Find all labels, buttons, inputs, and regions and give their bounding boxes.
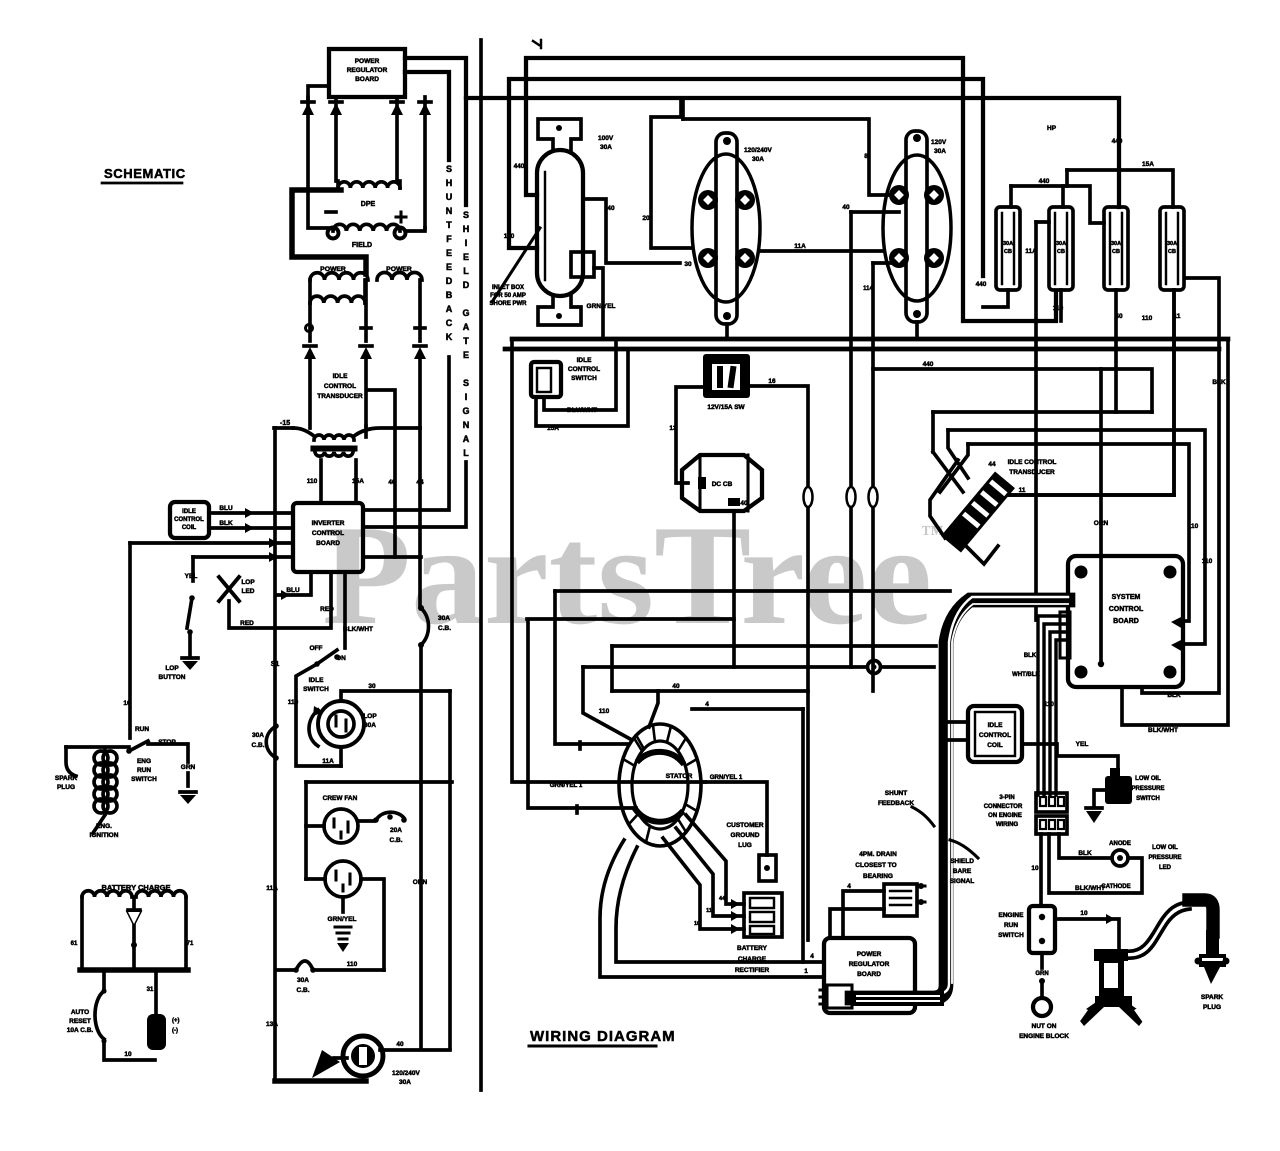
svg-text:S1: S1 bbox=[271, 661, 280, 668]
svg-text:F: F bbox=[446, 234, 452, 244]
svg-text:POWER: POWER bbox=[857, 951, 882, 958]
svg-text:CATHODE: CATHODE bbox=[1101, 884, 1130, 890]
svg-text:20A: 20A bbox=[390, 827, 402, 834]
svg-text:SPARK: SPARK bbox=[1201, 994, 1224, 1001]
svg-text:N: N bbox=[463, 420, 470, 430]
svg-text:LED: LED bbox=[242, 588, 255, 595]
svg-text:CONTROL: CONTROL bbox=[312, 530, 344, 537]
svg-text:POWER: POWER bbox=[320, 266, 346, 273]
svg-text:PLUG: PLUG bbox=[57, 784, 75, 791]
svg-text:10: 10 bbox=[694, 921, 700, 927]
svg-text:30A: 30A bbox=[934, 148, 946, 155]
svg-text:SWITCH: SWITCH bbox=[1136, 796, 1160, 802]
svg-text:NUT ON: NUT ON bbox=[1032, 1023, 1057, 1030]
svg-text:YEL: YEL bbox=[185, 573, 198, 580]
svg-text:SWITCH: SWITCH bbox=[571, 375, 597, 382]
svg-text:4PM. DRAIN: 4PM. DRAIN bbox=[859, 851, 897, 858]
svg-text:C.B.: C.B. bbox=[438, 625, 451, 632]
svg-text:E: E bbox=[446, 262, 452, 272]
svg-text:ENGINE BLOCK: ENGINE BLOCK bbox=[1019, 1033, 1069, 1040]
svg-text:BLK: BLK bbox=[219, 520, 233, 527]
svg-text:COIL: COIL bbox=[182, 525, 197, 531]
svg-text:PRESSURE: PRESSURE bbox=[1148, 855, 1181, 861]
svg-text:3-PIN: 3-PIN bbox=[999, 795, 1014, 801]
svg-text:30A: 30A bbox=[297, 977, 309, 984]
svg-text:S: S bbox=[446, 164, 452, 174]
svg-text:GRN: GRN bbox=[181, 764, 196, 771]
svg-text:BLK: BLK bbox=[1078, 850, 1092, 857]
svg-text:30A: 30A bbox=[399, 1079, 411, 1086]
svg-text:BEARING: BEARING bbox=[863, 873, 893, 880]
svg-text:A: A bbox=[463, 322, 470, 332]
svg-text:TRANSDUCER: TRANSDUCER bbox=[1009, 469, 1055, 476]
svg-text:30A: 30A bbox=[1111, 241, 1121, 247]
svg-text:TRANSDUCER: TRANSDUCER bbox=[317, 393, 363, 400]
svg-text:I: I bbox=[465, 238, 468, 248]
svg-text:CB: CB bbox=[1168, 249, 1176, 255]
svg-text:IDLE: IDLE bbox=[988, 722, 1003, 729]
svg-text:GRN: GRN bbox=[1035, 971, 1048, 977]
svg-text:110: 110 bbox=[347, 961, 358, 968]
svg-text:FEEDBACK: FEEDBACK bbox=[878, 800, 914, 807]
svg-text:SIGNAL: SIGNAL bbox=[950, 878, 975, 885]
svg-text:ENGINE: ENGINE bbox=[999, 912, 1025, 919]
svg-text:440: 440 bbox=[514, 163, 525, 170]
svg-text:IDLE: IDLE bbox=[333, 373, 348, 380]
svg-text:(-): (-) bbox=[172, 1028, 178, 1034]
svg-text:15A: 15A bbox=[1142, 161, 1154, 168]
svg-text:30: 30 bbox=[684, 261, 692, 268]
svg-text:16: 16 bbox=[768, 378, 776, 385]
svg-text:CLOSEST TO: CLOSEST TO bbox=[855, 862, 896, 869]
svg-text:WIRING DIAGRAM: WIRING DIAGRAM bbox=[530, 1028, 676, 1045]
svg-text:440: 440 bbox=[1039, 178, 1050, 185]
svg-text:SHUNT: SHUNT bbox=[885, 790, 907, 797]
svg-text:-15: -15 bbox=[280, 420, 290, 427]
svg-text:CONNECTOR: CONNECTOR bbox=[984, 804, 1023, 810]
svg-text:SHORE PWR: SHORE PWR bbox=[489, 301, 527, 307]
svg-text:110: 110 bbox=[1142, 315, 1153, 322]
svg-text:44: 44 bbox=[416, 479, 424, 486]
svg-text:CONTROL: CONTROL bbox=[979, 732, 1011, 739]
svg-text:REGULATOR: REGULATOR bbox=[347, 67, 388, 74]
svg-text:GRN/YEL 1: GRN/YEL 1 bbox=[550, 782, 583, 789]
svg-text:N: N bbox=[446, 206, 453, 216]
svg-text:GRN/YEL: GRN/YEL bbox=[328, 916, 357, 923]
svg-text:30A: 30A bbox=[364, 722, 376, 729]
svg-text:BUTTON: BUTTON bbox=[159, 674, 186, 681]
svg-text:SWITCH: SWITCH bbox=[131, 776, 157, 783]
svg-text:12V/15A SW: 12V/15A SW bbox=[707, 404, 745, 411]
svg-text:A: A bbox=[463, 434, 470, 444]
svg-text:BLU: BLU bbox=[286, 587, 300, 594]
svg-text:CUSTOMER: CUSTOMER bbox=[726, 822, 763, 829]
svg-text:GRN/YEL: GRN/YEL bbox=[587, 303, 616, 310]
svg-text:DC CB: DC CB bbox=[712, 481, 733, 488]
svg-text:11: 11 bbox=[1174, 313, 1181, 320]
svg-text:INVERTER: INVERTER bbox=[312, 520, 345, 527]
svg-text:4: 4 bbox=[705, 701, 709, 708]
svg-text:POWER: POWER bbox=[386, 266, 412, 273]
svg-text:CONTROL: CONTROL bbox=[324, 383, 356, 390]
svg-text:120/240V: 120/240V bbox=[744, 147, 772, 154]
svg-text:11: 11 bbox=[706, 908, 712, 914]
svg-text:E: E bbox=[463, 350, 469, 360]
svg-text:E: E bbox=[446, 248, 452, 258]
svg-text:BOARD: BOARD bbox=[1113, 618, 1139, 625]
svg-text:11A: 11A bbox=[794, 243, 806, 250]
svg-text:10: 10 bbox=[123, 700, 131, 707]
svg-text:A: A bbox=[446, 304, 453, 314]
svg-text:CONTROL: CONTROL bbox=[174, 517, 204, 523]
svg-text:PartsTree: PartsTree bbox=[322, 496, 932, 654]
svg-text:10: 10 bbox=[124, 1051, 132, 1058]
svg-text:POWER: POWER bbox=[355, 58, 380, 65]
svg-text:IGNITION: IGNITION bbox=[90, 832, 119, 839]
svg-text:RECTIFIER: RECTIFIER bbox=[735, 967, 770, 974]
svg-text:BOARD: BOARD bbox=[316, 540, 340, 547]
svg-text:30A: 30A bbox=[1167, 241, 1177, 247]
svg-text:110: 110 bbox=[1053, 305, 1064, 312]
svg-text:L: L bbox=[463, 266, 469, 276]
svg-text:LOW OIL: LOW OIL bbox=[1135, 776, 1161, 782]
svg-text:ON: ON bbox=[336, 655, 346, 662]
svg-text:110: 110 bbox=[599, 708, 610, 715]
svg-text:WIRING: WIRING bbox=[996, 822, 1019, 828]
svg-text:C.B.: C.B. bbox=[390, 837, 403, 844]
svg-text:STOP: STOP bbox=[158, 739, 176, 746]
svg-text:30A: 30A bbox=[1003, 241, 1013, 247]
svg-text:CREW FAN: CREW FAN bbox=[323, 795, 358, 802]
svg-text:15A: 15A bbox=[352, 478, 364, 485]
svg-text:REGULATOR: REGULATOR bbox=[849, 961, 890, 968]
svg-text:IDLE CONTROL: IDLE CONTROL bbox=[1008, 459, 1057, 466]
svg-text:30A: 30A bbox=[600, 144, 612, 151]
svg-text:HP: HP bbox=[1047, 125, 1057, 132]
svg-text:11: 11 bbox=[1019, 487, 1026, 494]
svg-text:FOR 50 AMP: FOR 50 AMP bbox=[490, 293, 526, 299]
svg-text:ORN: ORN bbox=[413, 879, 428, 886]
svg-text:BOARD: BOARD bbox=[355, 76, 379, 83]
svg-text:D: D bbox=[446, 276, 453, 286]
svg-text:SCHEMATIC: SCHEMATIC bbox=[104, 166, 186, 181]
svg-text:110: 110 bbox=[1044, 702, 1054, 708]
svg-text:LOP: LOP bbox=[165, 665, 179, 672]
svg-text:T: T bbox=[463, 336, 469, 346]
svg-text:44: 44 bbox=[988, 461, 996, 468]
svg-text:BLK/WHT: BLK/WHT bbox=[1148, 727, 1178, 734]
svg-text:40: 40 bbox=[388, 479, 396, 486]
svg-text:K: K bbox=[446, 332, 453, 342]
svg-text:RUN: RUN bbox=[135, 726, 149, 733]
svg-text:CONTROL: CONTROL bbox=[1109, 606, 1144, 613]
svg-text:RED: RED bbox=[240, 620, 254, 627]
svg-text:SHIELD: SHIELD bbox=[950, 858, 974, 865]
svg-text:COIL: COIL bbox=[987, 742, 1003, 749]
svg-text:C.B.: C.B. bbox=[252, 742, 265, 749]
svg-text:SPARK: SPARK bbox=[55, 775, 78, 782]
svg-text:44: 44 bbox=[719, 896, 726, 902]
svg-text:YEL: YEL bbox=[1076, 741, 1089, 748]
svg-text:30A: 30A bbox=[438, 615, 450, 622]
svg-text:440: 440 bbox=[1112, 138, 1123, 145]
svg-text:SWITCH: SWITCH bbox=[998, 932, 1024, 939]
svg-text:AUTO: AUTO bbox=[71, 1009, 89, 1016]
svg-text:GRN/YEL 1: GRN/YEL 1 bbox=[710, 774, 743, 781]
svg-text:RUN: RUN bbox=[1004, 922, 1018, 929]
svg-text:4: 4 bbox=[847, 883, 851, 890]
svg-text:110: 110 bbox=[504, 233, 515, 240]
svg-text:BLK: BLK bbox=[1024, 653, 1037, 659]
svg-text:40: 40 bbox=[740, 500, 748, 507]
svg-text:ENG: ENG bbox=[137, 758, 151, 765]
svg-text:T: T bbox=[446, 220, 452, 230]
svg-text:C: C bbox=[446, 318, 453, 328]
svg-text:WHT/BLK: WHT/BLK bbox=[1012, 672, 1040, 678]
svg-text:CHARGE: CHARGE bbox=[738, 956, 767, 963]
svg-text:11A: 11A bbox=[322, 758, 334, 765]
svg-text:20: 20 bbox=[642, 215, 650, 222]
svg-text:BLU: BLU bbox=[219, 505, 233, 512]
svg-text:BATTERY CHARGE: BATTERY CHARGE bbox=[101, 883, 170, 892]
svg-text:IDLE: IDLE bbox=[309, 677, 324, 684]
svg-text:BLU/WHT: BLU/WHT bbox=[567, 407, 597, 414]
svg-text:IDLE: IDLE bbox=[577, 357, 592, 364]
svg-text:H: H bbox=[463, 224, 470, 234]
svg-text:110: 110 bbox=[1188, 523, 1199, 530]
svg-text:BOARD: BOARD bbox=[857, 971, 881, 978]
svg-text:RUN: RUN bbox=[137, 767, 151, 774]
svg-text:DPE: DPE bbox=[361, 201, 376, 208]
svg-text:U: U bbox=[446, 192, 453, 202]
svg-text:RED: RED bbox=[320, 606, 334, 613]
svg-text:B: B bbox=[446, 290, 453, 300]
svg-text:CB: CB bbox=[1004, 249, 1012, 255]
svg-text:71: 71 bbox=[187, 941, 194, 947]
svg-text:LOP: LOP bbox=[241, 579, 255, 586]
svg-text:BLK/WHT: BLK/WHT bbox=[1075, 885, 1105, 892]
svg-text:120V: 120V bbox=[931, 139, 947, 146]
svg-text:SWITCH: SWITCH bbox=[303, 686, 329, 693]
svg-text:BLK: BLK bbox=[1167, 692, 1181, 699]
svg-text:10: 10 bbox=[1080, 910, 1088, 917]
svg-text:110: 110 bbox=[307, 478, 318, 485]
svg-text:BLK: BLK bbox=[1212, 379, 1226, 386]
svg-text:BARE: BARE bbox=[953, 868, 972, 875]
svg-text:40: 40 bbox=[607, 205, 615, 212]
svg-text:GROUND: GROUND bbox=[731, 832, 760, 839]
svg-text:STATOR: STATOR bbox=[666, 773, 693, 780]
svg-text:RESET: RESET bbox=[69, 1018, 91, 1025]
svg-text:31: 31 bbox=[147, 987, 154, 993]
svg-text:E: E bbox=[463, 252, 469, 262]
svg-text:CB: CB bbox=[1112, 249, 1120, 255]
svg-text:CONTROL: CONTROL bbox=[568, 366, 600, 373]
svg-text:LUG: LUG bbox=[738, 842, 752, 849]
svg-text:440: 440 bbox=[976, 281, 987, 288]
svg-text:G: G bbox=[462, 406, 469, 416]
svg-text:440: 440 bbox=[923, 361, 934, 368]
svg-text:4: 4 bbox=[810, 953, 814, 960]
svg-text:INLET BOX: INLET BOX bbox=[492, 285, 524, 291]
svg-text:CB: CB bbox=[1057, 249, 1065, 255]
svg-text:30A: 30A bbox=[252, 732, 264, 739]
svg-text:SYSTEM: SYSTEM bbox=[1112, 594, 1141, 601]
svg-text:30: 30 bbox=[368, 683, 376, 690]
svg-text:13: 13 bbox=[669, 425, 677, 432]
svg-text:100V: 100V bbox=[598, 135, 614, 142]
svg-text:40: 40 bbox=[396, 1041, 404, 1048]
svg-text:I: I bbox=[465, 392, 468, 402]
svg-text:110: 110 bbox=[288, 699, 299, 706]
svg-text:LOP: LOP bbox=[363, 713, 377, 720]
svg-text:120/240V: 120/240V bbox=[392, 1070, 420, 1077]
svg-text:S: S bbox=[463, 210, 469, 220]
svg-text:LOW OIL: LOW OIL bbox=[1152, 845, 1178, 851]
svg-text:PRESSURE: PRESSURE bbox=[1131, 786, 1164, 792]
svg-text:H: H bbox=[446, 178, 453, 188]
svg-text:10A C.B.: 10A C.B. bbox=[67, 1027, 94, 1034]
svg-text:1: 1 bbox=[804, 968, 808, 975]
svg-text:L: L bbox=[463, 448, 469, 458]
svg-text:11A: 11A bbox=[1025, 248, 1037, 255]
svg-text:PLUG: PLUG bbox=[1203, 1004, 1221, 1011]
svg-text:30A: 30A bbox=[752, 156, 764, 163]
svg-text:BATTERY: BATTERY bbox=[737, 945, 768, 952]
svg-text:D: D bbox=[463, 280, 470, 290]
svg-text:FIELD: FIELD bbox=[352, 242, 372, 249]
svg-text:61: 61 bbox=[71, 941, 78, 947]
svg-text:LED: LED bbox=[1159, 865, 1172, 871]
svg-text:IDLE: IDLE bbox=[182, 509, 196, 515]
svg-text:8: 8 bbox=[864, 153, 868, 160]
svg-text:OFF: OFF bbox=[310, 645, 323, 652]
svg-text:40: 40 bbox=[1115, 313, 1123, 320]
svg-text:ON ENGINE: ON ENGINE bbox=[988, 813, 1022, 819]
svg-text:13A: 13A bbox=[266, 1021, 278, 1028]
svg-text:ANODE: ANODE bbox=[1109, 841, 1131, 847]
svg-text:110: 110 bbox=[1202, 558, 1213, 565]
svg-text:BLK/WHT: BLK/WHT bbox=[343, 626, 373, 633]
svg-text:10: 10 bbox=[1031, 865, 1039, 872]
svg-text:40: 40 bbox=[842, 204, 850, 211]
svg-text:15A: 15A bbox=[547, 425, 559, 432]
svg-text:S: S bbox=[463, 378, 469, 388]
svg-text:(+): (+) bbox=[172, 1018, 180, 1024]
svg-text:C.B.: C.B. bbox=[297, 987, 310, 994]
svg-text:40: 40 bbox=[672, 683, 680, 690]
svg-text:114: 114 bbox=[863, 286, 873, 292]
svg-text:ORN: ORN bbox=[1094, 520, 1109, 527]
svg-text:30A: 30A bbox=[1056, 241, 1066, 247]
svg-text:G: G bbox=[462, 308, 469, 318]
svg-text:11A: 11A bbox=[266, 885, 278, 892]
svg-text:ENG.: ENG. bbox=[96, 823, 112, 830]
